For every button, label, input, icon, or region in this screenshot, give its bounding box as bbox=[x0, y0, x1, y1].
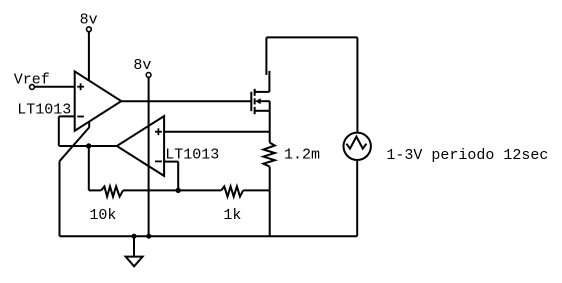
svg-text:Vref: Vref bbox=[14, 72, 50, 89]
svg-text:LT1013: LT1013 bbox=[165, 146, 219, 163]
svg-text:1k: 1k bbox=[223, 207, 241, 224]
svg-text:1.2m: 1.2m bbox=[284, 147, 320, 164]
svg-text:1-3V periodo 12sec: 1-3V periodo 12sec bbox=[386, 147, 548, 164]
svg-text:10k: 10k bbox=[89, 207, 116, 224]
svg-text:8v: 8v bbox=[133, 57, 151, 74]
svg-text:8v: 8v bbox=[80, 12, 98, 29]
svg-text:LT1013: LT1013 bbox=[17, 101, 71, 118]
